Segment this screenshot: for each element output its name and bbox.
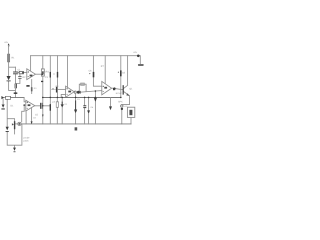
- svg-text:C9: C9: [77, 98, 80, 101]
- svg-text:R1: R1: [12, 57, 16, 60]
- svg-text:BC547: BC547: [116, 92, 123, 95]
- svg-text:C5: C5: [35, 114, 39, 117]
- svg-text:pads: pads: [24, 140, 30, 143]
- svg-text:R2: R2: [23, 76, 27, 79]
- svg-text:D4: D4: [91, 106, 94, 109]
- svg-text:D1: D1: [11, 105, 15, 108]
- svg-text:probe: probe: [24, 137, 31, 140]
- svg-text:C7: C7: [52, 101, 56, 104]
- svg-text:R3: R3: [34, 87, 37, 90]
- svg-text:+9v: +9v: [133, 51, 138, 54]
- svg-text:R7: R7: [101, 65, 105, 68]
- svg-text:+9v: +9v: [4, 41, 9, 44]
- svg-text:D2: D2: [65, 103, 68, 106]
- svg-text:C4: C4: [56, 85, 60, 88]
- svg-text:SPK: SPK: [118, 101, 123, 104]
- svg-text:VR1: VR1: [45, 71, 50, 74]
- svg-text:C8: C8: [122, 72, 126, 75]
- svg-text:C6: C6: [89, 70, 93, 73]
- svg-text:D3: D3: [33, 117, 36, 120]
- svg-text:C3: C3: [45, 76, 49, 79]
- svg-text:Q1: Q1: [129, 88, 133, 91]
